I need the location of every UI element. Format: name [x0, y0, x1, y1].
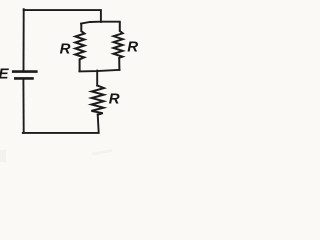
node bottom bar of parallel block — [79, 70, 119, 72]
wire left vertical upper (to battery) — [23, 9, 25, 70]
node top bar of parallel block — [81, 22, 120, 24]
resistor R left parallel branch — [75, 24, 84, 71]
scan smudge bottom center — [92, 149, 112, 155]
battery E bottom plate — [14, 77, 34, 80]
resistor R right parallel branch — [114, 22, 123, 70]
battery E top plate — [12, 70, 38, 73]
resistor R series branch — [91, 85, 104, 114]
wire top: from left corner to right corner and drop to parallel block — [24, 10, 101, 22]
wire left vertical lower (battery to bottom corner) — [22, 79, 24, 133]
svg-text:E: E — [0, 66, 10, 83]
wire stem from bottom bar to series resistor — [96, 71, 98, 86]
svg-text:R: R — [127, 38, 138, 55]
scan smudge bottom left edge — [0, 150, 6, 162]
svg-text:R: R — [109, 91, 120, 108]
wire bottom: from series resistor tail to bottom-left corner — [23, 114, 99, 132]
svg-text:R: R — [60, 41, 71, 58]
